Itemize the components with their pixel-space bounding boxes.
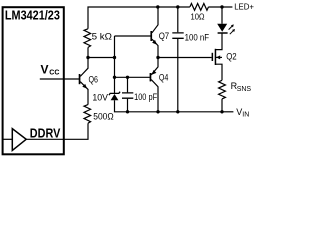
- svg-text:Q2: Q2: [226, 52, 237, 62]
- svg-text:100 nF: 100 nF: [185, 33, 210, 43]
- svg-text:Q4: Q4: [159, 72, 169, 82]
- svg-text:Q6: Q6: [89, 75, 99, 85]
- svg-text:100 pF: 100 pF: [134, 92, 157, 102]
- svg-text:DDRV: DDRV: [30, 125, 61, 140]
- svg-text:Q7: Q7: [159, 31, 170, 41]
- svg-text:SNS: SNS: [237, 86, 252, 93]
- svg-text:CC: CC: [49, 69, 59, 76]
- svg-text:LED+: LED+: [234, 1, 254, 11]
- svg-text:10Ω: 10Ω: [191, 11, 205, 21]
- svg-text:V: V: [41, 63, 49, 77]
- svg-text:IN: IN: [242, 111, 249, 118]
- svg-text:LM3421/23: LM3421/23: [5, 8, 60, 23]
- svg-text:500Ω: 500Ω: [93, 112, 114, 122]
- svg-text:5 kΩ: 5 kΩ: [92, 32, 113, 42]
- svg-text:10V: 10V: [92, 93, 108, 103]
